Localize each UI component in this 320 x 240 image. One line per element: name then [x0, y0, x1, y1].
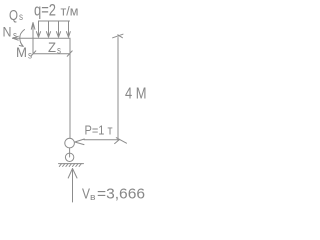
svg-text:Z: Z: [48, 39, 56, 55]
svg-text:s: s: [19, 12, 23, 23]
svg-text:s: s: [57, 46, 61, 57]
svg-text:4 M: 4 M: [125, 86, 147, 103]
svg-text:т/м: т/м: [61, 3, 79, 18]
svg-text:=3,666: =3,666: [97, 186, 145, 203]
svg-text:s: s: [28, 51, 32, 62]
svg-text:в: в: [90, 192, 96, 202]
svg-text:N: N: [3, 24, 12, 40]
svg-text:M: M: [16, 44, 27, 60]
svg-text:Q: Q: [9, 7, 18, 24]
svg-text:V: V: [82, 186, 90, 203]
svg-text:s: s: [13, 31, 17, 42]
svg-text:q=2: q=2: [34, 1, 56, 20]
svg-text:P=1 т: P=1 т: [85, 123, 113, 138]
